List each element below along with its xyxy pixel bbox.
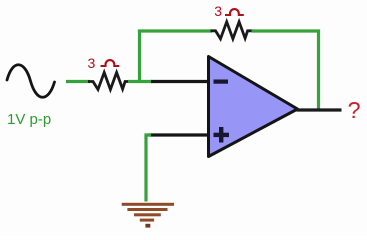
- label R1 value 3 ohm: [88, 55, 120, 71]
- output wire: [297, 108, 342, 111]
- ground: [122, 203, 174, 228]
- wire node A to inverting input: [151, 80, 209, 83]
- resistor R2 feedback: [211, 22, 253, 39]
- wire R1 to node A: [128, 80, 152, 83]
- wire source to R1: [66, 80, 90, 83]
- wire top left to R2: [138, 29, 212, 32]
- wire right riser down to output: [317, 30, 320, 110]
- op-amp minus pin mark: [214, 80, 229, 84]
- node A junction vertical feedback riser: [138, 30, 141, 82]
- source V1 sine symbol: [7, 65, 55, 98]
- svg-text:3: 3: [88, 55, 96, 71]
- svg-text:?: ?: [348, 97, 361, 123]
- node B green corner to ground: [146, 135, 151, 202]
- wire R2 to right riser: [252, 29, 321, 32]
- op-amp plus pin mark: [214, 127, 230, 143]
- op-amp U1: [209, 57, 298, 157]
- label R2 value 3 ohm: [214, 3, 244, 19]
- resistor R1: [88, 73, 130, 90]
- wire noninverting input to node B: [149, 133, 209, 136]
- svg-text:3: 3: [214, 3, 222, 19]
- svg-text:1V p-p: 1V p-p: [7, 111, 51, 128]
